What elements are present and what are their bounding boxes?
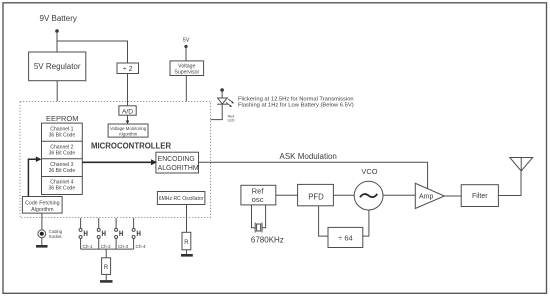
microcontroller boundary (dashed) xyxy=(20,101,211,217)
amplifier Amp xyxy=(415,183,444,208)
divider ÷64 xyxy=(328,227,363,247)
wire resistor to ground xyxy=(186,250,188,255)
oscillator Ref osc xyxy=(241,185,276,205)
EEPROM Channel 3 cell xyxy=(49,162,76,174)
annotation flicker note xyxy=(238,97,354,109)
svg-text:36 Bit Code: 36 Bit Code xyxy=(49,186,76,192)
svg-text:ASK Modulation: ASK Modulation xyxy=(280,152,337,161)
wire Amp to Filter xyxy=(444,195,461,197)
svg-text:Ch-3: Ch-3 xyxy=(118,244,129,249)
ground (switch R) xyxy=(100,280,113,283)
wire 9V to regulator xyxy=(56,31,58,52)
EEPROM Channel 1 cell xyxy=(49,127,76,139)
svg-text:Flashing at 1Hz for Low Batter: Flashing at 1Hz for Low Battery (Below 6… xyxy=(238,102,354,108)
switch Ch-2 xyxy=(97,218,111,249)
svg-text:Code Fetching: Code Fetching xyxy=(25,201,60,207)
svg-text:Amp: Amp xyxy=(419,194,434,201)
wire PFD to VCO xyxy=(333,194,354,196)
wire 9V branch to divider xyxy=(57,41,128,63)
svg-text:5V Regulator: 5V Regulator xyxy=(34,62,81,71)
svg-text:36 Bit Code: 36 Bit Code xyxy=(49,133,76,139)
svg-text:36 Bit Code: 36 Bit Code xyxy=(49,168,76,174)
svg-text:MICROCONTROLLER: MICROCONTROLLER xyxy=(91,142,171,151)
switch Ch-1 xyxy=(79,218,93,249)
wire VCO to Amp xyxy=(383,194,415,196)
switch Ch-4 xyxy=(132,218,146,249)
node 9V Battery xyxy=(40,14,77,23)
svg-text:Ch-2: Ch-2 xyxy=(101,244,112,249)
svg-text:6MHz RC Oscillator: 6MHz RC Oscillator xyxy=(159,196,204,202)
svg-text:9V Battery: 9V Battery xyxy=(40,14,77,23)
block Code Fetching Algorithm xyxy=(22,197,62,214)
svg-text:Supervisor: Supervisor xyxy=(174,69,199,75)
arrow Code Fetching to EEPROM xyxy=(28,156,41,196)
wire code fetching to coding socket xyxy=(41,213,43,230)
wire Filter to antenna xyxy=(498,171,521,196)
block Encoding Algorithm xyxy=(156,152,199,173)
wire switch bus xyxy=(81,248,134,250)
svg-text:VCO: VCO xyxy=(361,167,377,176)
wire supply to LED xyxy=(221,90,223,98)
svg-text:ALGORITHM: ALGORITHM xyxy=(158,165,199,172)
memory EEPROM xyxy=(42,114,83,195)
crystal 6780KHz xyxy=(251,205,284,245)
EEPROM Channel 2 cell xyxy=(49,144,76,156)
wire PFD to divider xyxy=(319,206,328,236)
wire LED to microcontroller xyxy=(211,105,223,120)
svg-text:A/D: A/D xyxy=(122,109,133,116)
label Red LED xyxy=(228,114,236,122)
svg-text:Algorithm: Algorithm xyxy=(119,132,138,137)
resistor R (oscillator) xyxy=(182,232,191,250)
connector Coding Socket xyxy=(38,229,63,239)
wire 5V to supervisor xyxy=(185,47,187,61)
label MICROCONTROLLER xyxy=(91,142,171,151)
svg-text:÷ 2: ÷ 2 xyxy=(123,64,133,73)
EEPROM Channel 4 cell xyxy=(49,180,76,192)
svg-text:Filter: Filter xyxy=(472,193,488,200)
antenna xyxy=(510,158,533,172)
wire supervisor to microcontroller xyxy=(185,76,187,102)
svg-text:R: R xyxy=(104,265,109,271)
svg-text:R: R xyxy=(184,240,189,246)
resistor R (switch bus) xyxy=(102,258,111,275)
ground (coding socket) xyxy=(36,245,48,248)
regulator 5V Regulator xyxy=(29,52,86,81)
wire bus to resistor xyxy=(105,249,107,258)
svg-text:Socket: Socket xyxy=(49,234,63,239)
svg-text:Algorithm: Algorithm xyxy=(31,207,54,213)
svg-text:LED: LED xyxy=(228,119,236,123)
wire resistor to ground xyxy=(105,274,107,280)
wire divider to A/D xyxy=(127,74,129,106)
junction 9V xyxy=(55,29,59,33)
arrow A/D to voltage monitoring xyxy=(126,115,130,124)
block PFD xyxy=(298,184,334,205)
supervisor Voltage Supervisor xyxy=(170,61,204,76)
svg-text:EEPROM: EEPROM xyxy=(46,114,79,123)
wire oscillator to resistor xyxy=(186,205,188,233)
svg-text:ENCODING: ENCODING xyxy=(158,156,195,163)
wire VCO to divider xyxy=(363,210,369,236)
wire regulator to microcontroller xyxy=(56,81,58,102)
svg-text:6780KHz: 6780KHz xyxy=(251,236,284,245)
svg-text:Voltage Monitoring: Voltage Monitoring xyxy=(110,126,147,131)
svg-text:36 Bit Code: 36 Bit Code xyxy=(49,150,76,156)
filter Filter xyxy=(461,185,498,207)
wire Ref osc to PFD xyxy=(276,194,298,196)
junction 5V xyxy=(184,45,187,48)
svg-text:÷ 64: ÷ 64 xyxy=(338,234,353,243)
wire socket to ground xyxy=(41,238,43,245)
node 5V xyxy=(183,38,190,44)
vco VCO xyxy=(354,167,383,210)
divider ÷2 xyxy=(117,63,139,74)
svg-text:Ch-1: Ch-1 xyxy=(83,244,94,249)
svg-text:5V: 5V xyxy=(183,38,190,44)
LED red D1 xyxy=(217,98,234,107)
block Voltage Monitoring Algorithm xyxy=(108,124,148,137)
svg-text:osc: osc xyxy=(252,195,264,204)
svg-text:Ch-4: Ch-4 xyxy=(136,244,147,249)
net ASK Modulation xyxy=(199,152,428,188)
junction LED supply xyxy=(220,88,224,92)
switch Ch-3 xyxy=(115,218,129,249)
ADC A/D xyxy=(119,106,136,116)
ground (oscillator R) xyxy=(181,254,193,257)
arrow EEPROM to Encoding xyxy=(82,159,157,165)
svg-text:PFD: PFD xyxy=(308,192,324,201)
oscillator 6MHz RC xyxy=(157,192,205,205)
